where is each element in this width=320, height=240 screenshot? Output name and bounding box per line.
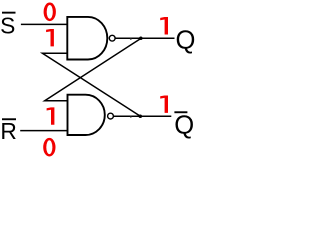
annotation 1 on U1 lower input: [46, 29, 54, 46]
annotation 0 on S input: [44, 3, 56, 22]
node A junction dot: [139, 37, 143, 41]
NAND gate U1: [67, 17, 107, 60]
annotation 1 on Q output: [160, 17, 168, 34]
wire U2 output to Q-bar: [114, 115, 172, 117]
svg-text:Q: Q: [174, 112, 194, 140]
node B junction dot: [139, 114, 143, 118]
svg-text:R: R: [0, 118, 16, 144]
svg-text:Q: Q: [176, 26, 196, 54]
wire R-bar input to gate U2: [20, 130, 67, 132]
wire U1 output to Q: [115, 37, 174, 39]
inverter bubble U1: [109, 35, 115, 41]
annotation 1 on Q-bar output: [160, 95, 168, 112]
artifact dot on Q-bar wire: [130, 116, 132, 118]
wire S-bar input to gate U1: [21, 23, 67, 25]
wire U2 upper input with cross line to node A: [45, 38, 142, 101]
annotation 0 below R input: [43, 138, 55, 157]
artifact dot on Q wire: [130, 38, 132, 40]
annotation 1 on R input: [47, 107, 55, 124]
wire U1 lower input with cross line to node B: [42, 53, 140, 116]
inverter bubble U2: [108, 113, 114, 119]
NAND gate U2: [68, 95, 105, 135]
svg-text:S: S: [0, 12, 15, 38]
